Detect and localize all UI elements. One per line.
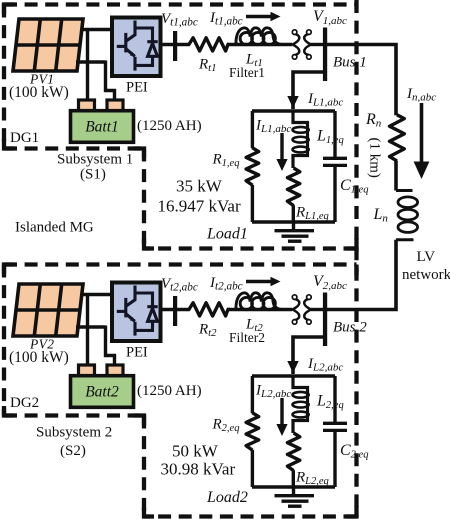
wire bus 2 to Load2 [293,337,325,374]
wire bus 1 to Load1 [293,72,325,109]
svg-text:Subsystem 2: Subsystem 2 [36,425,112,441]
Load2 bottom rail [252,485,335,488]
svg-text:network: network [402,267,450,283]
subsystem 1 dashed boundary (DG1 + Load1 region) [4,5,357,249]
resistor R1,eq branch [251,111,254,148]
svg-text:(S1): (S1) [80,167,106,183]
solar panel PV1 [13,19,83,71]
wire PV1 plus terminal to PEI [81,28,112,31]
Load2 top rail [252,374,335,377]
svg-text:Bus 2: Bus 2 [333,320,367,336]
transformer T1 (two windings) [292,30,311,59]
ground symbol Load2 [275,487,315,506]
inductor Ln [396,189,413,192]
svg-text:30.98 kVar: 30.98 kVar [161,460,236,479]
Load1 bottom rail [252,220,335,223]
inductor Lt1 (filter coil) [236,28,281,45]
resistor RL1,eq [287,168,299,206]
svg-text:(100 kW): (100 kW) [9,349,69,366]
svg-text:(1 km): (1 km) [367,138,383,178]
transformer T2 (two windings) [292,295,311,324]
svg-text:(1250 AH): (1250 AH) [137,118,202,134]
wire PV2 minus terminal [76,325,106,328]
wire PV2 to battery left terminal [86,295,89,367]
battery Batt2 body [71,376,134,408]
svg-text:DG1: DG1 [10,130,39,146]
wire PV2 plus terminal to PEI [81,293,112,296]
Load1 top rail [252,109,335,112]
svg-text:(S2): (S2) [60,443,86,459]
solid corner pieces of dashed boundaries [4,5,357,517]
node Vt2,abc tick [173,296,177,326]
bus 2 bar V2,abc [323,293,327,347]
svg-text:(100 kW): (100 kW) [9,84,69,101]
svg-text:LV: LV [417,249,436,265]
wire PEI2 output to bus [161,308,190,311]
wire Rn to Ln [394,161,398,191]
solar panel PV2 [13,284,83,336]
subsystem 2 dashed boundary (DG2 + Load2 region) [4,265,357,517]
subsystem boundary right edge (shared) [354,0,358,517]
IGBT with anti-parallel diode inside PEI2 [117,286,158,336]
battery Batt1 terminals [79,100,95,111]
current arrow It2,abc [246,280,271,284]
svg-text:(1250 AH): (1250 AH) [137,383,202,399]
wire bus 1 to LV network (top) [327,45,396,116]
current arrow It1,abc [246,15,271,19]
node Vt1,abc tick [173,31,177,61]
svg-text:50 kW: 50 kW [172,442,219,461]
svg-text:Filter1: Filter1 [229,65,265,80]
resistor R2,eq branch [251,376,254,413]
svg-text:PEI: PEI [126,80,148,96]
svg-text:Load2: Load2 [206,489,248,506]
svg-text:Batt1: Batt1 [85,119,119,136]
wire PV1 to battery left terminal [86,30,89,102]
svg-text:Filter2: Filter2 [229,330,265,345]
capacitor C1,eq [333,111,336,157]
battery Batt1 body [71,111,134,143]
current arrow In,abc [420,103,424,163]
power electronic interface PEI box (U2) [112,283,161,342]
wire PV1 minus terminal [76,60,106,63]
resistor Rn [390,115,405,161]
wire to battery right terminal [106,326,115,367]
svg-text:PEI: PEI [126,345,148,361]
svg-text:Bus 1: Bus 1 [333,55,367,71]
svg-text:Subsystem 1: Subsystem 1 [57,152,133,168]
IGBT with anti-parallel diode inside PEI1 [117,21,158,71]
svg-text:Load1: Load1 [206,226,248,243]
svg-text:Islanded MG: Islanded MG [15,220,94,236]
svg-text:35 kW: 35 kW [176,177,223,196]
wire PEI1 output to bus [161,43,190,46]
inductor L1,eq [293,111,308,168]
inductor L2,eq [293,376,308,433]
capacitor C2,eq [333,376,336,422]
svg-text:Batt2: Batt2 [85,384,119,401]
resistor Rt2 [189,303,228,316]
svg-text:DG2: DG2 [10,395,39,411]
svg-text:16.947 kVar: 16.947 kVar [158,197,241,216]
power electronic interface PEI box (U1) [112,18,161,77]
inductor Lt2 (filter coil) [236,293,281,310]
wire to battery right terminal [106,61,115,102]
resistor RL2,eq [287,433,299,471]
battery Batt2 terminals [79,365,95,376]
ground symbol Load1 [275,222,315,241]
wire Ln to bus 2 [327,240,396,310]
resistor Rt1 [189,38,228,51]
bus 1 bar V1,abc [323,28,327,82]
